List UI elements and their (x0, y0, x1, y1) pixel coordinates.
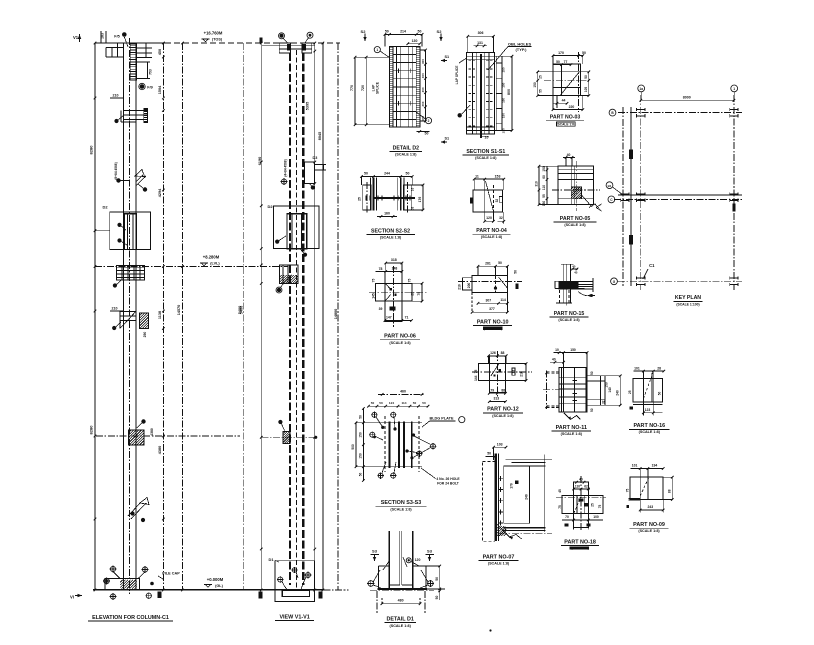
stray dot bottom center (489, 629, 491, 631)
top beam lines (506, 458, 546, 460)
svg-text:25: 25 (591, 503, 595, 507)
svg-text:126: 126 (490, 351, 496, 355)
svg-text:45: 45 (574, 271, 578, 275)
svg-text:(SCALE 1:8): (SCALE 1:8) (389, 341, 411, 345)
svg-text:77: 77 (564, 60, 568, 64)
right dims (439, 566, 441, 591)
svg-text:SECTION S3-S3: SECTION S3-S3 (381, 500, 421, 506)
view V1-V1 grid centerline right (337, 43, 339, 590)
PART NO-10 body (472, 276, 507, 293)
PART NO-18 cross body (574, 482, 589, 527)
svg-text:150: 150 (533, 82, 537, 88)
svg-text:DETAIL D2: DETAIL D2 (393, 145, 419, 151)
bolt dot with leader (114, 119, 118, 123)
svg-text:(SCALE 1:8): (SCALE 1:8) (492, 414, 514, 418)
svg-text:240: 240 (615, 390, 619, 396)
svg-text:14800: 14800 (334, 309, 338, 320)
svg-text:210: 210 (112, 307, 118, 311)
base gusset with hatch (497, 524, 510, 538)
key plan left bubbles (609, 109, 616, 116)
svg-text:(SCALE 1:100): (SCALE 1:100) (676, 303, 699, 307)
two heavy vertical plates (389, 422, 391, 469)
left dims (362, 408, 364, 481)
DETAIL D2 top dimension line (385, 33, 422, 35)
svg-text:C1: C1 (649, 263, 655, 268)
elevation column C1 flanges (122, 43, 124, 590)
svg-text:25: 25 (358, 197, 362, 201)
west arrow (596, 204, 602, 208)
svg-text:(SCALE 1:8): (SCALE 1:8) (639, 430, 661, 434)
svg-text:150: 150 (359, 453, 363, 459)
svg-text:160: 160 (384, 211, 390, 215)
svg-text:F/5: F/5 (114, 35, 120, 39)
svg-text:B1: B1 (608, 184, 612, 188)
svg-text:VI: VI (70, 595, 74, 600)
stiffener at y437 with centerline (261, 436, 315, 438)
svg-text:V1: V1 (73, 35, 79, 40)
svg-text:50: 50 (590, 408, 594, 412)
svg-text:50: 50 (514, 270, 518, 274)
dashed diagonal (643, 372, 653, 398)
svg-text:50: 50 (359, 415, 363, 419)
elevation grid centerline x=243.5 (shared with view V1) (243, 43, 245, 590)
bottom beam heavy lines (504, 527, 546, 529)
svg-text:8280: 8280 (89, 145, 94, 155)
base plate (105, 579, 140, 591)
left cover plate (363, 185, 372, 210)
svg-text:25: 25 (410, 292, 414, 296)
svg-text:240: 240 (525, 494, 529, 500)
svg-text:(SCALE 1:8): (SCALE 1:8) (380, 236, 402, 240)
right dims (422, 185, 424, 210)
svg-text:40: 40 (552, 358, 556, 362)
svg-text:50: 50 (556, 60, 560, 64)
I-beam web heavy line (372, 197, 415, 199)
PART NO-04 body (473, 190, 503, 212)
svg-text:PART NO-11: PART NO-11 (556, 425, 587, 431)
bolt circles above top plates (280, 34, 284, 38)
view V1-V1 web centerline (296, 50, 298, 588)
svg-text:2: 2 (428, 119, 430, 123)
centerlines (556, 496, 606, 498)
svg-text:50: 50 (406, 172, 410, 176)
bolt label F/9 (140, 84, 145, 89)
bolt squares (390, 288, 392, 290)
svg-text:5395: 5395 (305, 102, 309, 110)
svg-text:10: 10 (485, 136, 489, 140)
svg-text:25: 25 (539, 75, 543, 79)
svg-text:170: 170 (510, 483, 514, 489)
svg-text:S3: S3 (372, 549, 378, 554)
view V1-V1 right dimension lines (314, 43, 316, 590)
svg-text:770: 770 (350, 85, 354, 91)
svg-text:110: 110 (542, 185, 546, 190)
left dashed beam (546, 371, 548, 409)
svg-text:150: 150 (502, 82, 506, 87)
bolt ticks on web (365, 196, 367, 201)
PART NO-11 plate body (559, 368, 587, 412)
svg-text:1: 1 (733, 87, 735, 91)
svg-text:50: 50 (425, 132, 429, 136)
bracket left of column y265-284 (280, 265, 298, 284)
svg-text:75: 75 (408, 279, 412, 283)
svg-text:50: 50 (435, 577, 439, 581)
DETAIL D2 right dim column with 300 spacing (425, 50, 427, 121)
svg-text:50: 50 (435, 596, 439, 600)
base plate (379, 565, 390, 567)
svg-text:480: 480 (398, 599, 404, 603)
svg-text:88: 88 (501, 351, 505, 355)
svg-text:SECTION S1-S1: SECTION S1-S1 (466, 149, 505, 155)
SECTION S3-S3 plates (382, 422, 422, 424)
svg-text:800: 800 (507, 89, 511, 95)
right flange strip (496, 56, 502, 130)
svg-text:210: 210 (457, 284, 461, 290)
svg-text:PART NO-06: PART NO-06 (384, 334, 416, 340)
weld leader (582, 195, 592, 207)
svg-text:8280: 8280 (89, 425, 94, 435)
svg-text:S1: S1 (445, 55, 450, 59)
svg-text:130: 130 (412, 39, 418, 43)
centerlines (392, 266, 394, 327)
PART NO-09 body (630, 477, 663, 499)
svg-text:150: 150 (359, 432, 363, 438)
svg-text:50: 50 (498, 261, 502, 265)
elevation column C1 web centerline (129, 38, 131, 594)
svg-text:(TYP.): (TYP.) (515, 47, 527, 52)
svg-text:PART NO-15: PART NO-15 (554, 311, 585, 317)
svg-text:244: 244 (384, 172, 390, 176)
svg-text:55: 55 (542, 194, 546, 198)
PART NO-12 cross body (489, 356, 505, 392)
svg-text:300: 300 (421, 73, 425, 78)
left dims (537, 72, 539, 96)
key plan column symbols at intersections (637, 108, 645, 110)
svg-text:KEY PLAN: KEY PLAN (675, 295, 701, 301)
svg-text:377: 377 (489, 307, 495, 311)
svg-text:OBL HOLES: OBL HOLES (508, 41, 532, 46)
svg-text:50: 50 (487, 452, 491, 456)
svg-text:300: 300 (421, 59, 425, 64)
SECTION S1-S1 top dims (468, 35, 494, 37)
centerlines (552, 189, 600, 191)
svg-text:300: 300 (421, 101, 425, 106)
svg-text:(SCALE 1:8): (SCALE 1:8) (395, 153, 417, 157)
svg-text:150: 150 (502, 113, 506, 118)
svg-text:62: 62 (584, 484, 588, 488)
svg-text:50: 50 (590, 371, 594, 375)
top horizontals (262, 44, 315, 46)
svg-text:39: 39 (379, 307, 383, 311)
svg-text:6190: 6190 (258, 157, 262, 165)
splice plate inside D2 box (124, 214, 136, 250)
elevation top line at +16.760 level (95, 42, 165, 44)
svg-text:124: 124 (389, 401, 394, 405)
svg-text:75: 75 (625, 489, 629, 493)
splice plate inside (287, 214, 307, 249)
inner web rect (504, 466, 530, 523)
diagonal (491, 364, 499, 377)
bolt circles (372, 412, 377, 417)
svg-text:110: 110 (575, 484, 580, 488)
DETAIL D1 column shaft (388, 531, 390, 589)
svg-text:(8+84 4568): (8+84 4568) (114, 162, 118, 179)
svg-text:(SCALE 1:8): (SCALE 1:8) (390, 624, 412, 628)
svg-text:307: 307 (485, 298, 491, 302)
svg-text:4294: 4294 (158, 188, 162, 197)
svg-text:4380: 4380 (158, 446, 162, 454)
svg-text:55: 55 (539, 89, 543, 93)
PART NO-05 body (558, 166, 593, 204)
svg-text:BLDG PLATE: BLDG PLATE (430, 417, 454, 421)
stiffener at y430-445 (96, 435, 240, 437)
svg-text:PART NO-18: PART NO-18 (564, 539, 596, 545)
svg-text:(SCALE 1:8): (SCALE 1:8) (558, 318, 580, 322)
key plan vertical gridlines (640, 95, 642, 290)
svg-text:50: 50 (582, 51, 586, 55)
bolt crosses (572, 380, 576, 382)
svg-text:144: 144 (474, 375, 478, 381)
inner dashed details (574, 497, 581, 513)
svg-text:4380: 4380 (150, 428, 154, 436)
elevation column C1: left dimension line (94, 43, 96, 590)
DETAIL D2 plate body (390, 47, 420, 127)
svg-text:101: 101 (634, 367, 640, 371)
svg-text:(SCALE 1:8): (SCALE 1:8) (564, 223, 586, 227)
svg-text:210: 210 (520, 371, 524, 377)
svg-text:75: 75 (474, 370, 478, 374)
column top hatched splice strip (130, 44, 136, 80)
svg-text:75: 75 (558, 505, 562, 509)
svg-text:145: 145 (371, 293, 375, 299)
svg-text:75: 75 (598, 505, 602, 509)
svg-text:60: 60 (542, 175, 546, 179)
PART NO-15 center blobs (559, 281, 579, 289)
SECTION S1-S1 body (467, 53, 495, 134)
svg-text:176: 176 (418, 197, 422, 203)
svg-text:150: 150 (502, 98, 506, 103)
svg-text:+16.760M: +16.760M (204, 31, 223, 36)
base plate below GL (282, 590, 309, 596)
svg-text:FOR 24 BOLT: FOR 24 BOLT (437, 482, 460, 486)
anchor bolts (368, 581, 374, 587)
dashed diagonal (640, 478, 648, 496)
svg-text:16: 16 (411, 188, 415, 192)
svg-text:S2: S2 (361, 29, 367, 34)
svg-text:150: 150 (542, 166, 546, 172)
svg-text:1a: 1a (639, 87, 643, 91)
svg-text:1: 1 (376, 48, 378, 52)
svg-text:PART NO-12: PART NO-12 (487, 407, 519, 413)
right vertical (543, 455, 545, 533)
bolt squares (499, 369, 501, 371)
svg-text:D1: D1 (269, 557, 275, 562)
SECTION S2-S2 top dim (362, 176, 413, 178)
key plan grid bubble 1a top-left (638, 85, 645, 92)
svg-text:(SCALE 1:8): (SCALE 1:8) (638, 529, 660, 533)
weld symbol bottom (564, 413, 571, 420)
svg-text:25: 25 (628, 390, 632, 394)
svg-text:(SCALE 1:8): (SCALE 1:8) (475, 156, 497, 160)
svg-text:101: 101 (632, 464, 638, 468)
anchor plate marks below baseline (258, 592, 262, 599)
svg-text:114: 114 (402, 401, 407, 405)
svg-text:306: 306 (478, 31, 484, 35)
left dims (538, 166, 540, 204)
svg-text:32: 32 (499, 216, 503, 220)
PART NO-04 top dim (474, 178, 504, 180)
leaders and filled dots (381, 426, 384, 429)
svg-text:PART NO-07: PART NO-07 (483, 554, 515, 560)
svg-text:F/9: F/9 (147, 86, 153, 90)
svg-text:120: 120 (415, 558, 421, 562)
right dim 800 (511, 56, 513, 130)
svg-text:50: 50 (584, 75, 588, 79)
svg-text:194: 194 (652, 464, 658, 468)
svg-text:PART NO-09: PART NO-09 (633, 522, 665, 528)
diagonal edge (561, 72, 580, 95)
svg-text:200: 200 (467, 283, 471, 289)
svg-text:450: 450 (158, 49, 162, 55)
bolt crosses (498, 477, 503, 479)
svg-text:313: 313 (493, 397, 499, 401)
bolt center crosses (396, 70, 400, 72)
heavy end plate (495, 454, 497, 542)
svg-text:720: 720 (361, 85, 365, 91)
svg-text:100: 100 (593, 515, 599, 519)
svg-text:153: 153 (495, 174, 501, 178)
weld symbol (509, 535, 516, 538)
svg-text:28: 28 (657, 366, 661, 370)
PART NO-16 body (633, 379, 663, 402)
column base and anchor bolts (110, 566, 115, 571)
svg-text:147: 147 (386, 315, 392, 319)
centerline (458, 281, 522, 283)
svg-text:123: 123 (645, 408, 651, 412)
svg-text:S3: S3 (427, 549, 433, 554)
svg-text:(SCALE 1:8): (SCALE 1:8) (481, 235, 503, 239)
svg-text:(SCALE 1:8): (SCALE 1:8) (488, 562, 510, 566)
svg-text:88: 88 (501, 388, 505, 392)
leader circles DETAIL D2 (374, 47, 380, 53)
svg-text:70: 70 (565, 515, 569, 519)
svg-text:14570: 14570 (177, 305, 181, 316)
level line +8.280 (95, 266, 288, 268)
svg-text:D3: D3 (313, 156, 318, 160)
svg-text:753: 753 (149, 69, 153, 75)
svg-text:50: 50 (364, 172, 368, 176)
svg-text:140: 140 (608, 387, 612, 393)
key plan horizontal gridlines (618, 112, 742, 114)
key plan secondary verticals (622, 107, 624, 286)
svg-text:220: 220 (569, 105, 575, 109)
svg-text:D2: D2 (103, 205, 109, 210)
svg-text:(4+84 4568): (4+84 4568) (284, 159, 288, 176)
svg-text:PART NO-16: PART NO-16 (633, 423, 665, 429)
svg-text:PILE CAP: PILE CAP (162, 572, 180, 576)
svg-text:281: 281 (485, 262, 491, 266)
svg-text:50: 50 (422, 401, 426, 405)
view V1-V1: left dimension line (260, 43, 262, 590)
svg-text:4 No. 26 HOLE: 4 No. 26 HOLE (436, 477, 460, 481)
PART NO-07 dashed column outline (482, 462, 494, 542)
flanges (373, 177, 375, 210)
svg-text:44: 44 (562, 99, 566, 103)
elevation dimension line x=163 (162, 43, 164, 590)
below-grade centerlines (376, 591, 378, 614)
svg-text:(SCALE 1:8): (SCALE 1:8) (571, 546, 588, 550)
svg-text:243: 243 (647, 505, 653, 509)
svg-text:500: 500 (351, 444, 355, 450)
svg-text:79: 79 (490, 388, 494, 392)
key plan grid bubble 1 top-right (731, 85, 738, 92)
svg-text:50: 50 (359, 473, 363, 477)
svg-text:(SCALE 1:8): (SCALE 1:8) (390, 508, 412, 512)
svg-text:120: 120 (486, 216, 492, 220)
top bracket left of column (106, 47, 123, 49)
svg-text:(SCALE 1:8): (SCALE 1:8) (561, 432, 583, 436)
svg-text:50: 50 (371, 401, 375, 405)
svg-text:8000: 8000 (683, 96, 691, 100)
svg-text:75: 75 (417, 292, 421, 296)
svg-text:318: 318 (391, 258, 397, 262)
svg-text:(SCALE 1:8): (SCALE 1:8) (557, 123, 575, 127)
brace at y503-519 (131, 503, 146, 519)
svg-text:VIEW V1-V1: VIEW V1-V1 (279, 615, 309, 621)
svg-text:51: 51 (512, 369, 516, 373)
bracket at y110-122 (123, 110, 147, 112)
svg-text:50: 50 (379, 401, 383, 405)
anchor plate mark below elevation baseline (158, 592, 162, 598)
svg-text:460: 460 (400, 390, 406, 394)
svg-text:PART NO-04: PART NO-04 (476, 228, 507, 234)
bolt row lines (393, 53, 416, 55)
svg-text:PART NO-10: PART NO-10 (477, 319, 509, 325)
elevation grid centerline x=182.5 (182, 43, 184, 590)
bottom (628, 498, 640, 500)
svg-text:103: 103 (497, 442, 503, 446)
svg-text:150: 150 (605, 382, 609, 388)
view V1-V1 column flange heavy dashed lines (289, 53, 291, 585)
svg-text:50: 50 (413, 401, 417, 405)
svg-text:10: 10 (555, 348, 559, 352)
svg-text:250: 250 (143, 332, 147, 338)
svg-text:214: 214 (400, 30, 406, 34)
svg-text:SPLICE: SPLICE (375, 81, 379, 94)
elevation baseline at GL (93, 589, 323, 591)
svg-text:150: 150 (542, 201, 546, 207)
svg-text:+0.000M: +0.000M (207, 577, 224, 582)
lower dashes (559, 290, 561, 304)
svg-text:170: 170 (558, 51, 564, 55)
svg-text:(GL): (GL) (215, 584, 224, 588)
svg-text:75: 75 (371, 279, 375, 283)
right dims (588, 72, 590, 96)
svg-text:1138: 1138 (158, 311, 162, 319)
svg-text:S1: S1 (445, 137, 450, 141)
svg-text:PART NO-03: PART NO-03 (550, 115, 581, 121)
DETAIL D2 left dimension lines (354, 57, 356, 125)
PART NO-15 body (561, 263, 566, 265)
right cover plate (403, 185, 412, 210)
svg-text:300: 300 (421, 115, 425, 120)
beam seat at +8.280 (116, 266, 144, 281)
svg-text:11: 11 (475, 174, 479, 178)
svg-text:50: 50 (418, 30, 422, 34)
svg-text:88: 88 (667, 489, 671, 493)
centerlines (544, 79, 589, 81)
svg-text:+8.280M: +8.280M (203, 255, 220, 260)
